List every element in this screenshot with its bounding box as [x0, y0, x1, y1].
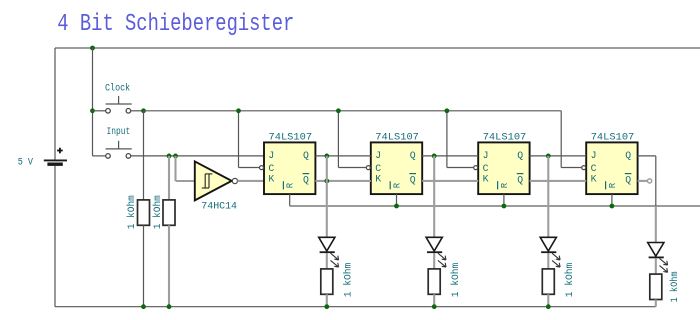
wire U4 clock drop: [447, 111, 474, 168]
svg-text:1 kOhm: 1 kOhm: [343, 263, 355, 298]
wire input line to U2 J: [131, 155, 264, 157]
junction Q1-bar crossing: [324, 179, 329, 184]
svg-text:R: R: [392, 182, 402, 188]
svg-text:Q: Q: [410, 175, 416, 186]
wire Q2-bar to next K: [422, 180, 478, 182]
svg-text:R: R: [286, 182, 296, 188]
svg-text:Q: Q: [410, 150, 416, 161]
svg-text:1 kOhm: 1 kOhm: [126, 195, 138, 229]
resistor R4: [428, 269, 440, 294]
wire inverter output to U2 K: [238, 180, 265, 182]
junction R5 ground: [546, 304, 551, 309]
wire U2 clock drop: [239, 111, 260, 168]
resistor R3: [321, 269, 333, 294]
wire LED D4 branch: [655, 206, 657, 243]
wire Q3 to next J: [530, 155, 587, 157]
pin label R-bar U5: [606, 181, 618, 189]
svg-text:1 kOhm: 1 kOhm: [564, 263, 576, 298]
wire U4 reset pin drop: [503, 194, 505, 206]
svg-text:K: K: [375, 174, 381, 185]
svg-text:Q: Q: [303, 175, 309, 186]
junction reset rail U4: [502, 204, 507, 209]
resistor R2: [163, 200, 175, 225]
wire clock pulldown branch: [143, 111, 145, 200]
wire Q1 to next J: [315, 155, 370, 157]
svg-text:4 Bit Schieberegister: 4 Bit Schieberegister: [57, 10, 294, 38]
svg-text:J: J: [591, 150, 597, 161]
clock bubble U2: [260, 166, 264, 170]
pin label Q-bar U2: [303, 174, 310, 186]
svg-text:1 kOhm: 1 kOhm: [450, 263, 462, 298]
wire switch supply vertical: [92, 48, 94, 156]
wire U2 reset pin drop: [289, 194, 291, 206]
junction R3 ground: [324, 304, 329, 309]
junction reset rail U3: [394, 204, 399, 209]
junction R4 ground: [432, 304, 437, 309]
wire LED D1 branch: [326, 156, 328, 237]
LED D2: [426, 237, 446, 267]
wire clock rail: [144, 110, 562, 112]
junction Q1 LED tap: [324, 154, 329, 159]
svg-text:74HC14: 74HC14: [201, 201, 237, 213]
wire R1 to ground: [143, 225, 145, 306]
svg-text:J: J: [268, 150, 274, 161]
wire D2 to R4: [433, 253, 435, 269]
wire battery negative branch: [54, 166, 56, 307]
svg-text:Q: Q: [517, 175, 523, 186]
pin label R-bar U3: [390, 181, 402, 189]
pin label R-bar U2: [283, 181, 295, 189]
battery BT1: [44, 148, 67, 165]
switch S2 Input: [93, 141, 132, 158]
clock bubble U4: [474, 166, 478, 170]
pin label Q-bar U3: [409, 174, 416, 186]
svg-text:J: J: [483, 150, 489, 161]
wire reset rail: [290, 205, 700, 207]
wire +5V top rail: [55, 47, 700, 49]
svg-text:Q: Q: [625, 150, 631, 161]
wire Q1-bar to next K: [315, 180, 370, 182]
wire LED D2 branch: [433, 156, 435, 237]
svg-text:J: J: [375, 150, 381, 161]
junction R1 ground: [141, 304, 146, 309]
svg-text:1 kOhm: 1 kOhm: [152, 195, 164, 229]
junction clock rail drop 1: [236, 108, 241, 113]
resistor R5: [542, 269, 554, 294]
wire U5 clock drop: [561, 111, 582, 168]
wire Q2 to next J: [422, 155, 478, 157]
junction Q2 LED tap: [432, 154, 437, 159]
svg-text:C: C: [375, 163, 381, 174]
junction top rail to switch branch: [90, 46, 95, 51]
svg-text:1 kOhm: 1 kOhm: [669, 271, 681, 302]
pin label Q-bar U5: [625, 174, 632, 186]
wire R5 to ground: [547, 294, 549, 306]
wire D3 to R5: [547, 253, 549, 269]
svg-text:C: C: [591, 163, 597, 174]
svg-text:K: K: [591, 174, 597, 185]
junction clock rail drop 2: [336, 108, 341, 113]
svg-text:Input: Input: [107, 126, 131, 138]
svg-text:Q: Q: [517, 150, 523, 161]
svg-text:R: R: [500, 182, 510, 188]
svg-text:Clock: Clock: [105, 83, 130, 95]
wire R2 to ground: [168, 225, 170, 306]
junction clock switch branch: [90, 108, 95, 113]
svg-text:Q: Q: [303, 150, 309, 161]
wire U3 clock drop: [338, 111, 366, 168]
svg-text:C: C: [483, 163, 489, 174]
junction input pulldown: [167, 154, 172, 159]
svg-text:C: C: [268, 163, 274, 174]
flip-flop U3 74LS107 body: [371, 142, 422, 194]
wire R6 to ground: [655, 300, 657, 307]
junction reset rail U5: [610, 204, 615, 209]
wire R4 to ground: [433, 294, 435, 306]
wire battery positive branch: [54, 48, 56, 160]
junction clock rail drop 3: [445, 108, 450, 113]
wire R3 to ground: [326, 294, 328, 306]
svg-text:K: K: [268, 174, 274, 185]
wire Q4 output: [638, 156, 656, 206]
junction Q3 LED tap: [546, 154, 551, 159]
LED D3: [540, 237, 560, 267]
LED D4: [648, 243, 668, 273]
resistor R6: [650, 274, 662, 299]
clock bubble U3: [366, 166, 370, 170]
resistor R1: [138, 200, 150, 225]
flip-flop U4 74LS107 body: [478, 142, 529, 194]
svg-text:K: K: [483, 174, 489, 185]
svg-text:R: R: [608, 182, 618, 188]
junction inverter input tap: [173, 154, 178, 159]
wire D1 to R3: [326, 253, 328, 269]
flip-flop U2 74LS107 body: [264, 142, 315, 194]
pin label R-bar U4: [498, 181, 510, 189]
wire ground bottom rail: [55, 306, 656, 308]
inverter U1 74HC14: [195, 161, 238, 200]
wire Q4-bar stub unconnected: [638, 179, 652, 183]
switch S1 Clock: [93, 96, 144, 113]
wire D4 to R6: [655, 258, 657, 274]
wire U3 reset pin drop: [396, 194, 398, 206]
svg-text:5 V: 5 V: [18, 157, 33, 168]
junction R2 ground: [167, 304, 172, 309]
flip-flop U5 74LS107 body: [586, 142, 637, 194]
pin label Q-bar U4: [517, 174, 524, 186]
wire R2 branch: [168, 156, 170, 200]
wire Q3-bar to next K: [530, 180, 587, 182]
svg-text:Q: Q: [625, 175, 631, 186]
junction clock node: [141, 108, 146, 113]
wire input to inverter: [176, 156, 195, 181]
LED D1: [319, 237, 339, 267]
wire LED D3 branch: [547, 156, 549, 237]
clock bubble U5: [582, 166, 586, 170]
wire U5 reset pin drop: [611, 194, 613, 206]
